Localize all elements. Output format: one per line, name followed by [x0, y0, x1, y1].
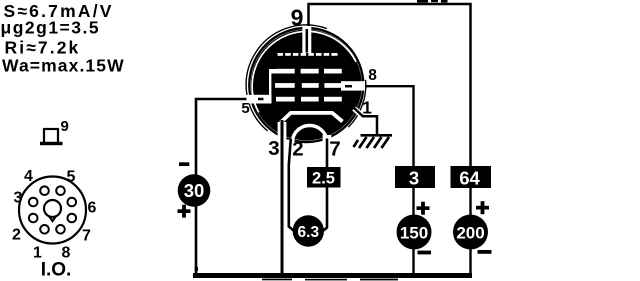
wire pin7 heater lead down to 2.5 box — [326, 139, 329, 168]
svg-text:3: 3 — [268, 137, 279, 160]
plus sign above 200 — [476, 201, 489, 214]
svg-text:64: 64 — [459, 167, 480, 188]
pin1 white channel — [354, 109, 363, 117]
svg-text:6: 6 — [88, 200, 97, 217]
meter M4 anode supply 200 — [453, 215, 488, 250]
photocopy specks top edge — [417, 0, 448, 3]
minus sign above 30 — [179, 162, 189, 166]
svg-text:2.5: 2.5 — [312, 169, 335, 187]
socket outline — [19, 177, 86, 244]
tube V1 envelope lower-right double arc — [348, 80, 365, 127]
wire g2 net: pin8 right then down — [346, 86, 414, 166]
wire between 64-box and 200 meter — [469, 188, 471, 216]
wire pin1 lead to ground — [354, 108, 378, 135]
svg-text:2: 2 — [292, 138, 303, 161]
svg-text:3: 3 — [14, 190, 23, 207]
tube V1 inner black body — [251, 30, 362, 141]
svg-text:4: 4 — [24, 168, 33, 185]
bottom bus wire — [193, 273, 472, 278]
svg-text:3: 3 — [409, 167, 419, 188]
heater f arc — [293, 126, 327, 141]
minus sign below 150 — [418, 251, 432, 255]
pin2 white channel — [287, 140, 295, 146]
tube V1 envelope outer double arc — [246, 25, 327, 131]
photocopy speck on g1 wire above bus — [195, 267, 198, 271]
wire between 3-box and 150 meter — [412, 188, 414, 216]
socket spigot with key — [44, 200, 61, 221]
svg-text:μg2g1=3.5: μg2g1=3.5 — [1, 18, 101, 38]
cathode k — [281, 113, 343, 123]
grid g1 row — [276, 97, 342, 102]
svg-text:200: 200 — [456, 223, 484, 242]
svg-text:6.3: 6.3 — [298, 224, 320, 241]
svg-text:2: 2 — [12, 227, 21, 244]
top cap symbol — [40, 129, 63, 145]
ammeter box 2.5 (heater current) — [307, 167, 341, 188]
svg-text:Wa=max.15W: Wa=max.15W — [2, 56, 125, 76]
socket pin 5 hole — [56, 186, 65, 195]
wire pin3 cathode lead down to bus — [281, 120, 284, 274]
svg-text:5: 5 — [241, 100, 249, 117]
pin3 white channel — [278, 122, 287, 140]
ammeter box 64 (anode current) — [451, 166, 492, 188]
svg-text:I.O.: I.O. — [41, 260, 72, 281]
wire pin8 lead into envelope — [345, 85, 352, 88]
pin5 white channel through envelope — [247, 95, 272, 104]
pin8 white channel through envelope — [341, 81, 365, 90]
wire 150 meter to bus — [412, 248, 414, 274]
svg-text:8: 8 — [368, 67, 377, 84]
meter M1 grid supply 30 — [178, 174, 211, 207]
svg-text:9: 9 — [61, 118, 69, 135]
pin7 white channel — [323, 135, 332, 145]
svg-text:30: 30 — [184, 180, 205, 201]
pin9 white channel through envelope — [302, 26, 311, 53]
wire 200 meter to bus — [469, 248, 471, 274]
wire pin5 lead into envelope — [258, 98, 264, 101]
svg-text:150: 150 — [400, 223, 428, 242]
socket pin 4 hole — [40, 186, 49, 195]
svg-text:1: 1 — [362, 98, 372, 118]
meter M3 screen supply 150 — [397, 215, 432, 250]
socket pin 3 hole — [29, 198, 38, 207]
wire g1 net: pin5 left then down to bottom bus — [196, 99, 260, 274]
meter M2 heater supply 6.3 — [293, 215, 324, 246]
wire pin2 heater lead down to 6.3 meter — [289, 139, 294, 231]
socket pin 2 hole — [29, 214, 38, 223]
svg-text:7: 7 — [329, 138, 340, 161]
wire pin9 lead inside envelope — [306, 29, 309, 53]
photocopy specks below bus — [262, 279, 398, 281]
svg-text:5: 5 — [67, 169, 76, 186]
plus sign below 30 — [178, 205, 191, 218]
tube V1 envelope — [249, 28, 363, 142]
wire anode top net: pin9 up, across, down right side — [309, 4, 471, 166]
socket pin 7 hole — [68, 214, 77, 223]
svg-text:Ri≈7.2k: Ri≈7.2k — [5, 38, 81, 58]
socket pin 8 hole — [56, 225, 65, 234]
ammeter box 3 (screen current) — [395, 166, 435, 188]
g1-g3 strap (left bracket) — [269, 69, 277, 102]
socket pin 6 hole — [68, 198, 77, 207]
grid g3 row — [276, 69, 342, 74]
svg-text:7: 7 — [82, 228, 91, 245]
svg-text:9: 9 — [291, 5, 304, 31]
grid g2 row — [275, 83, 342, 88]
plus sign above 150 — [417, 202, 430, 215]
tube V1 envelope inner white gap arc — [252, 31, 356, 112]
minus sign below 200 — [478, 250, 492, 254]
socket pin 1 hole — [40, 225, 49, 234]
anode a (dashed plate line) — [278, 53, 338, 56]
wire 2.5 box down to 6.3 meter — [324, 187, 328, 231]
ground symbol — [354, 135, 393, 148]
